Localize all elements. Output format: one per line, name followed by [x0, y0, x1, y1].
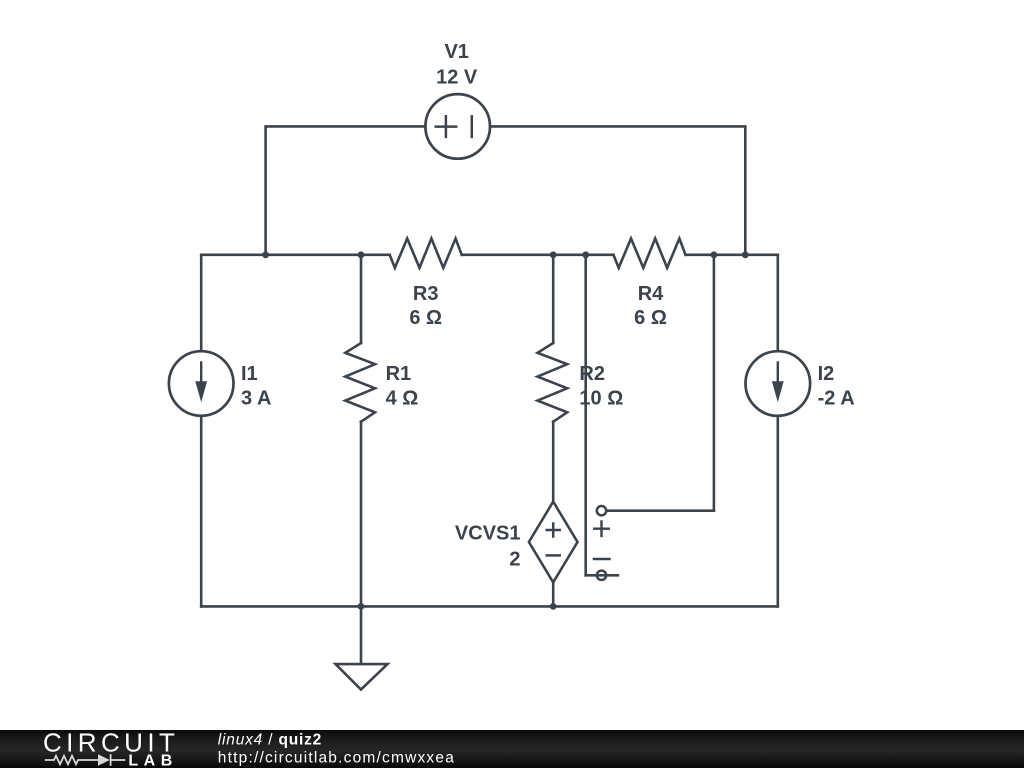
sense minus glyph [594, 558, 610, 560]
wire V1 left lead and drop [266, 126, 426, 254]
svg-text:R2: R2 [579, 363, 605, 385]
sense plus glyph [594, 521, 609, 536]
node R2 top junction [550, 251, 557, 258]
VCVS1 plus sign [547, 524, 560, 537]
svg-text:R3: R3 [413, 283, 439, 305]
svg-text:4 Ω: 4 Ω [386, 387, 419, 409]
svg-text:VCVS1: VCVS1 [455, 522, 521, 544]
svg-text:V1: V1 [444, 41, 468, 63]
sense terminal minus circle [597, 571, 606, 580]
svg-text:R1: R1 [386, 363, 412, 385]
resistor R1 [345, 343, 375, 422]
wire bottom bus [201, 605, 778, 608]
svg-text:http://circuitlab.com/cmwxxea: http://circuitlab.com/cmwxxea [218, 749, 455, 766]
wire sense plus vertical [713, 255, 716, 511]
current source I2 [746, 351, 811, 416]
I1 arrow [200, 363, 202, 393]
node sense minus top junction [582, 251, 589, 258]
current source I1 [169, 351, 234, 416]
svg-text:I1: I1 [241, 363, 258, 385]
wire sense minus vertical [584, 255, 587, 576]
node V1 right junction [742, 251, 749, 258]
wire top bus left segment [201, 254, 390, 257]
svg-text:3 A: 3 A [241, 387, 271, 409]
resistor R4 [614, 239, 686, 268]
resistor R3 [390, 239, 462, 268]
voltage source V1 [425, 94, 490, 159]
wire sense minus horizontal [586, 574, 618, 577]
footer bar [0, 730, 1024, 768]
wire R2 bottom lead [552, 422, 555, 502]
wire top bus middle segment [462, 254, 614, 257]
ground [336, 664, 388, 689]
wire VCVS1 bottom lead [552, 582, 555, 606]
node R1 top junction [358, 251, 365, 258]
svg-text:I2: I2 [818, 363, 835, 385]
svg-text:R4: R4 [638, 283, 664, 305]
wire V1 right lead and drop [490, 126, 745, 254]
svg-text:12 V: 12 V [436, 66, 478, 88]
wire R1 top lead [360, 255, 363, 343]
node ground junction [358, 603, 365, 610]
dependent source VCVS1 diamond [529, 502, 578, 583]
V1 plus sign [436, 116, 457, 137]
wire top bus right segment [686, 254, 778, 257]
wire left branch upper [200, 255, 203, 351]
node VCVS1 bottom junction [550, 603, 557, 610]
wire left branch lower [200, 416, 203, 607]
svg-text:2: 2 [509, 548, 520, 570]
resistor R2 [538, 343, 568, 422]
node R4 right junction [711, 251, 718, 258]
svg-text:6 Ω: 6 Ω [634, 307, 667, 329]
CircuitLab logo resistor-diode glyph [45, 754, 126, 766]
svg-text:linux4 / quiz2: linux4 / quiz2 [218, 731, 322, 748]
sense terminal plus circle [597, 506, 606, 515]
I2 arrow [777, 363, 779, 393]
wire ground stem [360, 606, 363, 663]
VCVS1 minus sign [547, 554, 560, 557]
node V1 left junction [262, 251, 269, 258]
svg-text:10 Ω: 10 Ω [579, 387, 623, 409]
wire R2 top lead [552, 255, 555, 343]
wire right branch upper [776, 255, 779, 351]
svg-text:LAB: LAB [128, 753, 177, 768]
svg-text:6 Ω: 6 Ω [409, 307, 442, 329]
wire sense plus horizontal [606, 509, 714, 512]
svg-text:-2 A: -2 A [818, 387, 855, 409]
wire right branch lower [776, 416, 779, 607]
wire R1 bottom lead [360, 422, 363, 607]
V1 minus bar [471, 116, 474, 137]
